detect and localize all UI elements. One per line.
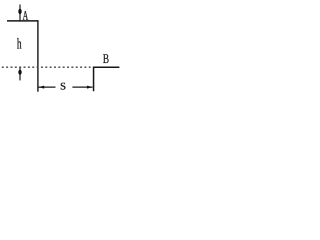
label A bbox=[23, 11, 28, 20]
upper surface line bbox=[7, 20, 38, 22]
s dimension right segment bbox=[72, 86, 92, 88]
h dimension upper arrowhead bbox=[18, 9, 21, 15]
h dimension lower arrowhead bbox=[18, 70, 21, 75]
s dimension right arrowhead bbox=[87, 86, 93, 89]
cliff vertical edge bbox=[37, 20, 39, 91]
label s bbox=[61, 83, 66, 90]
dashed reference line bbox=[2, 66, 91, 68]
label B bbox=[103, 54, 109, 63]
h dimension lower arrow shaft bbox=[19, 67, 21, 80]
right step: vertical face and top surface bbox=[94, 67, 120, 91]
h dimension upper arrow shaft bbox=[19, 5, 21, 21]
label h bbox=[17, 38, 21, 49]
s dimension left segment bbox=[39, 86, 56, 88]
s dimension left arrowhead bbox=[39, 86, 45, 89]
